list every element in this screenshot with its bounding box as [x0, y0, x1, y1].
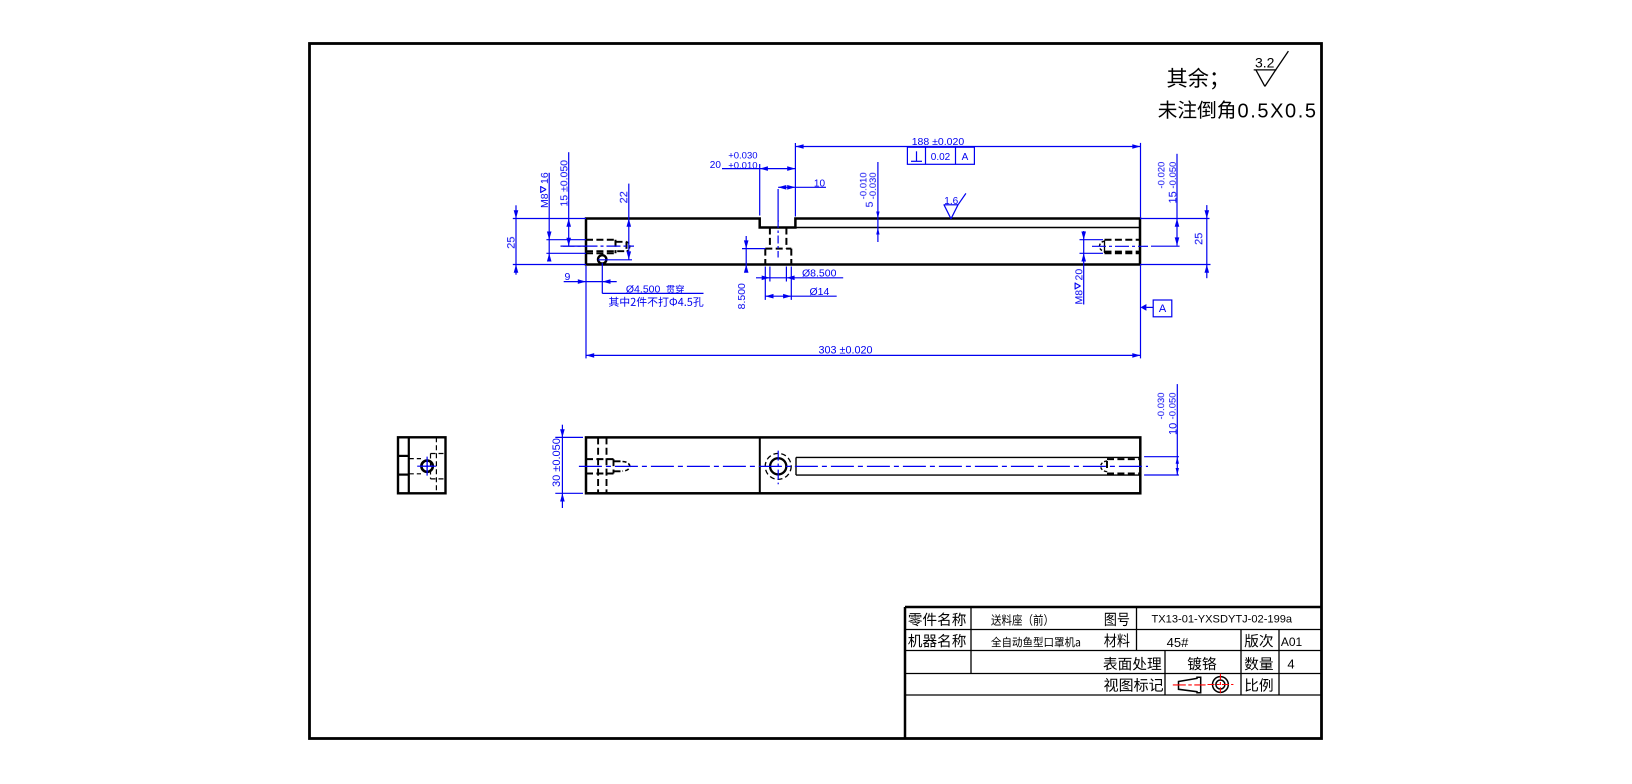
svg-text:Ø4.500: Ø4.500: [626, 283, 661, 295]
end view: crosshair: [417, 457, 437, 477]
title: material label: [1104, 633, 1129, 647]
svg-text:10: 10: [1168, 423, 1180, 435]
dim 8.500 counterbore depth: [736, 236, 765, 309]
dim phi14: [765, 267, 836, 300]
top view: notch edge line: [759, 437, 761, 493]
title: drawing no label: [1105, 613, 1129, 626]
dim 15 -0.020/-0.050 right: [1140, 154, 1210, 246]
title: machine name value: [991, 637, 1080, 648]
dim 25 left: [506, 205, 519, 274]
title: revision label: [1245, 634, 1273, 648]
svg-text:-0.030: -0.030: [868, 172, 879, 199]
svg-text:A01: A01: [1281, 635, 1303, 649]
svg-text:M8: M8: [539, 193, 551, 208]
top view: channel groove: [796, 457, 1140, 475]
svg-text:20: 20: [710, 160, 722, 171]
main view: phi4.5 hole circle: [598, 255, 606, 263]
main view: middle counterbored hole (hidden lines): [765, 228, 791, 265]
datum A flag: [1141, 300, 1172, 317]
title: scale label: [1245, 678, 1272, 692]
top view: right M8 hidden lines: [1101, 459, 1141, 473]
svg-text:A: A: [962, 152, 969, 163]
svg-text:Ø14: Ø14: [810, 286, 830, 298]
view mark: frustum symbol: [1173, 677, 1206, 693]
end view: face edge line: [408, 437, 410, 493]
dim 15 +-0.050 left: [558, 152, 586, 246]
dim phi8.500: [756, 267, 843, 282]
svg-text:15: 15: [1167, 191, 1179, 203]
main view: middle hole centerline: [777, 220, 779, 258]
svg-text:-0.050: -0.050: [1168, 162, 1179, 189]
note: unnoted chamfer 0.5X0.5: [1158, 100, 1317, 122]
top view: center counterbore circles: [765, 453, 791, 479]
feature control frame perpendicularity 0.02 A: [907, 147, 974, 164]
dim 30 +-0.050: [551, 425, 583, 508]
leader note phi4.500 through: [602, 283, 703, 295]
main view: right M8 centerline: [1092, 245, 1148, 247]
svg-text:3.2: 3.2: [1255, 54, 1275, 70]
svg-text:TX13-01-YXSDYTJ-02-199a: TX13-01-YXSDYTJ-02-199a: [1152, 614, 1293, 626]
title block: outer thick lines: [905, 607, 1322, 739]
dim: left ext lines top/bottom: [513, 219, 586, 265]
main view: 5mm recess line: [795, 227, 1140, 229]
svg-text:9: 9: [565, 271, 571, 283]
note: among them 2 pcs no phi4.5 hole: [609, 297, 704, 307]
svg-text:4: 4: [1287, 657, 1294, 672]
main view: part outline with top notch: [586, 219, 1140, 265]
dim 10 (notch): [778, 179, 826, 223]
svg-text:-0.050: -0.050: [1168, 392, 1179, 419]
svg-text:20: 20: [1073, 269, 1085, 281]
svg-text:0.5X0.5: 0.5X0.5: [1238, 101, 1318, 123]
svg-text:5: 5: [864, 201, 876, 207]
top view: left M8 hidden lines: [586, 459, 630, 473]
surface finish 1.6 on top face: [944, 193, 966, 218]
svg-text:303 ±0.020: 303 ±0.020: [819, 345, 873, 357]
surface finish symbol 3.2: [1254, 51, 1289, 86]
svg-text:25: 25: [506, 237, 518, 249]
title: surface treatment label: [1103, 657, 1161, 671]
svg-text:8.500: 8.500: [736, 283, 748, 309]
svg-text:Ø8.500: Ø8.500: [802, 268, 837, 280]
end view: hidden lines: [409, 437, 446, 493]
title: machine name label: [908, 634, 966, 648]
main view: right M8 threaded hole (hidden lines): [1099, 240, 1140, 254]
dim 188 +-0.020: [795, 136, 1140, 217]
svg-text:A: A: [1159, 303, 1167, 315]
svg-text:M8: M8: [1073, 290, 1085, 305]
dim 22: [598, 184, 632, 260]
dim 5 -0.010/-0.030: [858, 162, 879, 242]
dim 303 +-0.020: [586, 143, 1141, 359]
svg-text:-0.020: -0.020: [1156, 162, 1167, 189]
top view: long centerline: [579, 465, 1148, 467]
note: qi yu (others): [1167, 68, 1216, 90]
main view: left M8 centerline: [561, 245, 635, 247]
svg-text:25: 25: [1193, 233, 1205, 245]
svg-text:-0.030: -0.030: [1156, 392, 1167, 419]
svg-text:188 ±0.020: 188 ±0.020: [912, 136, 965, 148]
dim 10 -0.030/-0.050 groove: [1144, 384, 1179, 475]
dim 9: [564, 263, 617, 293]
top view: circle vertical centerline: [777, 451, 779, 485]
dim M8 depth16 left: [539, 172, 586, 261]
svg-text:22: 22: [618, 191, 630, 203]
title block: column lines: [971, 607, 1279, 695]
title: surface treatment value (chrome): [1188, 657, 1217, 671]
title: quantity label: [1245, 657, 1273, 671]
title: view mark label: [1104, 678, 1163, 692]
svg-text:15 ±0.050: 15 ±0.050: [558, 160, 570, 207]
svg-text:30 ±0.050: 30 ±0.050: [551, 438, 563, 487]
svg-text:0.02: 0.02: [931, 152, 951, 163]
top view: part outline: [586, 437, 1140, 493]
view mark: circles symbol: [1208, 674, 1234, 696]
top view: phi4.5 hole hidden lines: [598, 437, 606, 493]
drawing border frame: [310, 44, 1322, 739]
title: part name label: [908, 613, 965, 627]
main view: left M8 threaded hole (hidden lines): [586, 240, 630, 254]
end view: outline: [398, 437, 446, 493]
dim 25 right: [1140, 205, 1211, 278]
svg-text:45#: 45#: [1167, 635, 1189, 650]
svg-text:16: 16: [539, 172, 551, 184]
title block: row lines: [905, 630, 1322, 696]
dim 20 +0.030/+0.010: [710, 151, 796, 216]
end view: channel edges: [398, 456, 409, 475]
end view: M8 circle: [421, 461, 432, 472]
svg-text:10: 10: [814, 179, 826, 190]
svg-text:+0.010: +0.010: [728, 160, 757, 171]
dim M8 depth20 right: [1073, 231, 1103, 305]
title: part name value: [991, 614, 1046, 626]
